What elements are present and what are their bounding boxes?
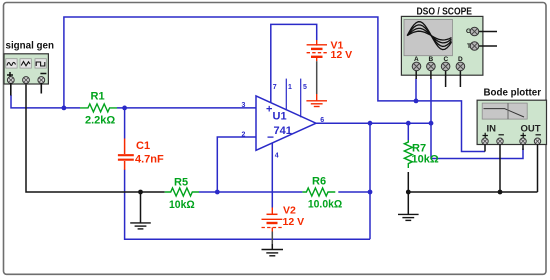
lead: scope A stub <box>415 71 417 79</box>
signal gen terminal + <box>7 77 14 84</box>
junction rail / left ground <box>138 190 143 195</box>
svg-text:R5: R5 <box>174 177 188 189</box>
svg-text:2: 2 <box>242 131 246 138</box>
Bode terminal OUT+ <box>520 138 526 144</box>
wire: op-amp pin 4 down to V2 <box>271 142 273 208</box>
junction rail / pin 2 <box>215 190 220 195</box>
lead: scope G stub <box>479 31 497 33</box>
wire: op-amp pin 2 to rail <box>217 137 256 192</box>
battery V2 <box>262 205 305 232</box>
junction output / feedback vertical <box>368 121 373 126</box>
scope knob A <box>412 62 421 71</box>
svg-text:12 V: 12 V <box>283 216 305 228</box>
wire: signal gen plus terminal to node A <box>11 95 80 108</box>
lead: V2 to ground <box>271 232 273 245</box>
ground (R7 / Bode) <box>398 192 419 220</box>
svg-text:12 V: 12 V <box>331 49 353 61</box>
resistor R7 (vertical) <box>404 123 439 192</box>
svg-text:1: 1 <box>288 84 292 91</box>
Bode terminal IN+ <box>482 138 488 144</box>
wire: op-amp output to scope B junction <box>316 122 431 124</box>
lead: scope T stub <box>479 45 497 47</box>
junction output / scope B <box>429 121 434 126</box>
junction node A (R1 left) <box>62 106 67 111</box>
junction output / R7 top <box>406 121 411 126</box>
svg-text:5: 5 <box>303 84 307 91</box>
svg-text:V2: V2 <box>283 205 296 217</box>
scope knob C <box>441 62 450 71</box>
svg-text:IN: IN <box>487 124 497 135</box>
Bode terminal IN- <box>497 138 503 144</box>
svg-text:Bode plotter: Bode plotter <box>484 87 542 99</box>
capacitor C1 <box>118 108 164 170</box>
junction scope A / top rail <box>414 99 419 104</box>
svg-text:4.7nF: 4.7nF <box>135 154 164 166</box>
Bode terminal OUT- <box>534 138 540 144</box>
scope knob D <box>456 62 465 71</box>
wire: rail blue segment R5 right to R6 left <box>199 191 302 193</box>
junction R1 right / C1 top <box>122 106 127 111</box>
wire: top rail from node A to scope route <box>64 17 485 152</box>
lead: scope B stub <box>430 71 432 79</box>
lead: Bode IN- stub <box>499 144 501 192</box>
lead: Bode OUT- stub <box>537 144 539 192</box>
svg-text:4: 4 <box>275 153 279 160</box>
signal gen terminal minus <box>38 77 45 84</box>
lead: Bode IN+ stub <box>484 144 486 151</box>
lead: plus terminal stub <box>10 83 12 96</box>
scope knob B <box>427 62 436 71</box>
pin 1 stub <box>285 79 287 111</box>
lead: scope C stub <box>445 71 447 87</box>
op-amp U1 741 <box>242 79 325 160</box>
svg-text:10kΩ: 10kΩ <box>412 154 439 166</box>
wire: feedback vertical output to R6 and bottom rail <box>369 123 371 239</box>
lead: V1 to ground <box>316 61 318 94</box>
junction IN- / ground wire <box>498 190 503 195</box>
junction rail / feedback vertical <box>368 190 373 195</box>
wire: bottom rail C1 to feedback vertical <box>125 170 370 240</box>
svg-text:R6: R6 <box>312 176 326 188</box>
wire: black ground wire under Bode plotter <box>408 191 537 193</box>
ground (V2) <box>262 244 284 256</box>
wire: R6 right to feedback vertical <box>338 191 370 193</box>
svg-text:DSO / SCOPE: DSO / SCOPE <box>417 6 473 18</box>
svg-text:+: + <box>266 104 272 116</box>
svg-text:10kΩ: 10kΩ <box>169 199 195 211</box>
lead: Bode OUT+ stub <box>522 144 524 150</box>
svg-text:10.0kΩ: 10.0kΩ <box>308 199 342 211</box>
lead: scope D stub <box>459 71 461 87</box>
resistor R1 <box>80 104 117 112</box>
DSO scope instrument box <box>401 16 483 75</box>
ground (left rail) <box>130 192 151 229</box>
Bode plotter instrument box <box>477 100 546 144</box>
svg-text:3: 3 <box>242 102 246 109</box>
wire: scope A drop <box>415 79 417 101</box>
svg-text:741: 741 <box>274 125 292 137</box>
svg-text:signal gen: signal gen <box>6 40 55 52</box>
signal gen terminal common <box>23 77 30 84</box>
wire: scope B down to Bode OUT+ <box>431 79 523 159</box>
wire: black ground rail from signal gen mid terminal to R5 <box>26 84 165 192</box>
svg-text:C1: C1 <box>136 140 150 152</box>
resistor R5 <box>165 188 199 196</box>
wire: V1 top route to op-amp pin 7 <box>271 24 317 103</box>
svg-text:6: 6 <box>320 117 324 124</box>
svg-text:7: 7 <box>273 84 277 91</box>
svg-text:U1: U1 <box>273 111 287 123</box>
svg-text:R1: R1 <box>91 91 105 103</box>
junction R7 bottom / ground wire <box>406 190 411 195</box>
pin 5 stub <box>300 79 302 118</box>
signal gen instrument box <box>4 54 48 84</box>
svg-text:2.2kΩ: 2.2kΩ <box>85 115 115 127</box>
wire: R1 right to op-amp pin 3 <box>117 107 256 109</box>
battery V1 <box>307 40 353 62</box>
ground (V1, red) <box>306 94 327 107</box>
resistor R6 <box>302 188 335 196</box>
lead: minus terminal stub <box>40 83 42 94</box>
